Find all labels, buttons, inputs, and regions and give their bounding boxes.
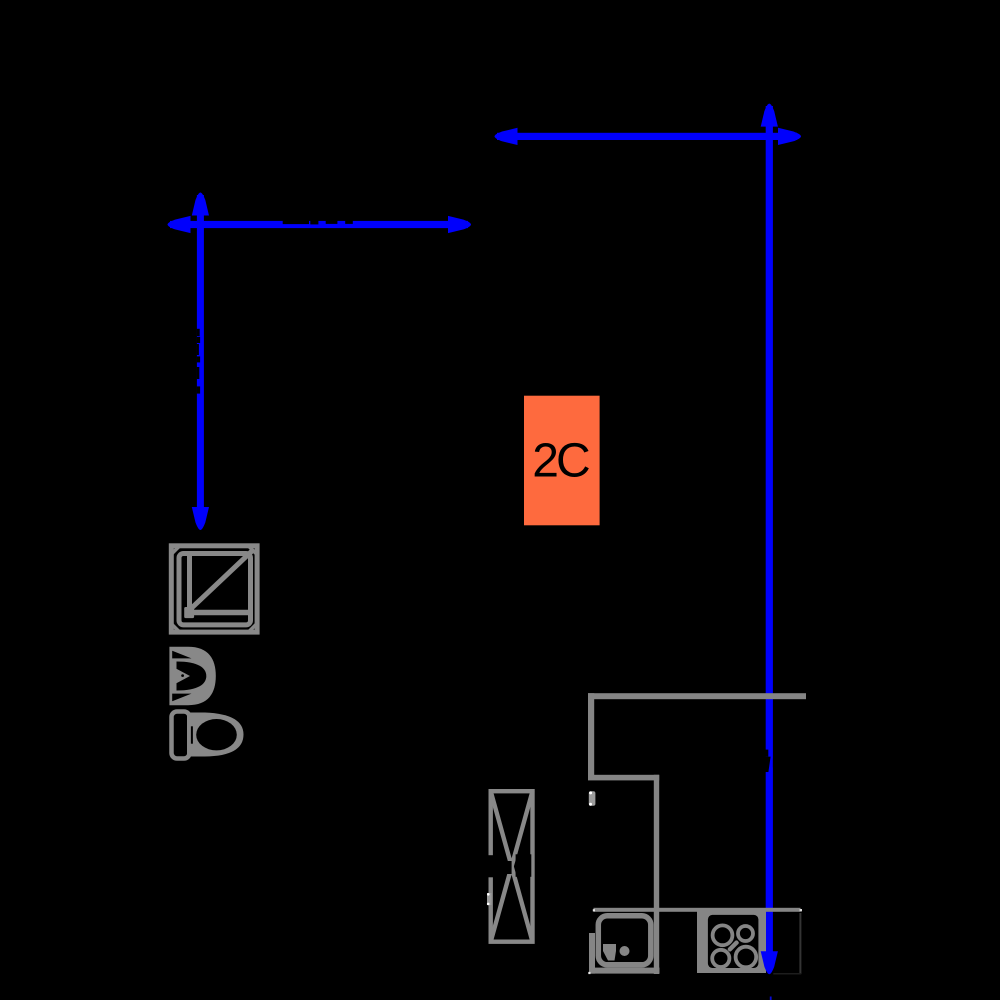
toilet tank bbox=[172, 712, 190, 759]
basin bottom cut bbox=[172, 694, 191, 702]
white handle dots bbox=[593, 909, 595, 911]
dim text notches on arrow A bbox=[283, 221, 353, 225]
kitchen sink drain bbox=[620, 946, 630, 956]
svg-text:2C: 2C bbox=[532, 434, 589, 487]
toilet bowl bbox=[187, 713, 244, 757]
dark counter end lines bbox=[799, 913, 801, 974]
stove burners bbox=[712, 925, 756, 967]
kitchen sink unit bbox=[598, 916, 651, 965]
dimension arrow A horizontal upper-left bbox=[168, 216, 472, 233]
basin drain dot bbox=[181, 674, 184, 677]
dim text notches on arrow B bbox=[197, 329, 200, 394]
dimension arrow B vertical left bbox=[192, 193, 209, 531]
dim text notches on arrow D bbox=[766, 750, 776, 772]
room label 2C orange rectangle bbox=[524, 396, 600, 526]
wardrobe text blackout bbox=[487, 855, 495, 877]
basin bowl cutout bbox=[177, 662, 207, 691]
shower drain box bbox=[184, 607, 194, 618]
wash basin bbox=[169, 647, 215, 705]
dimension arrow C horizontal top bbox=[495, 128, 802, 145]
basin tap wedge bbox=[172, 667, 190, 686]
stove block bbox=[697, 911, 766, 973]
stove centre bar bbox=[727, 940, 740, 953]
dimension arrow D bottom head (over stove) bbox=[761, 951, 778, 974]
kitchen counter outline bbox=[588, 693, 806, 974]
kitchen sink tap bbox=[603, 944, 616, 961]
dimension arrow D vertical right (shaft + top head) bbox=[761, 104, 778, 966]
wardrobe light tab bbox=[487, 893, 492, 905]
shower tray bbox=[171, 546, 257, 632]
basin top cut bbox=[172, 651, 191, 659]
wardrobe with X bbox=[491, 791, 533, 942]
counter door tab bbox=[589, 791, 596, 806]
